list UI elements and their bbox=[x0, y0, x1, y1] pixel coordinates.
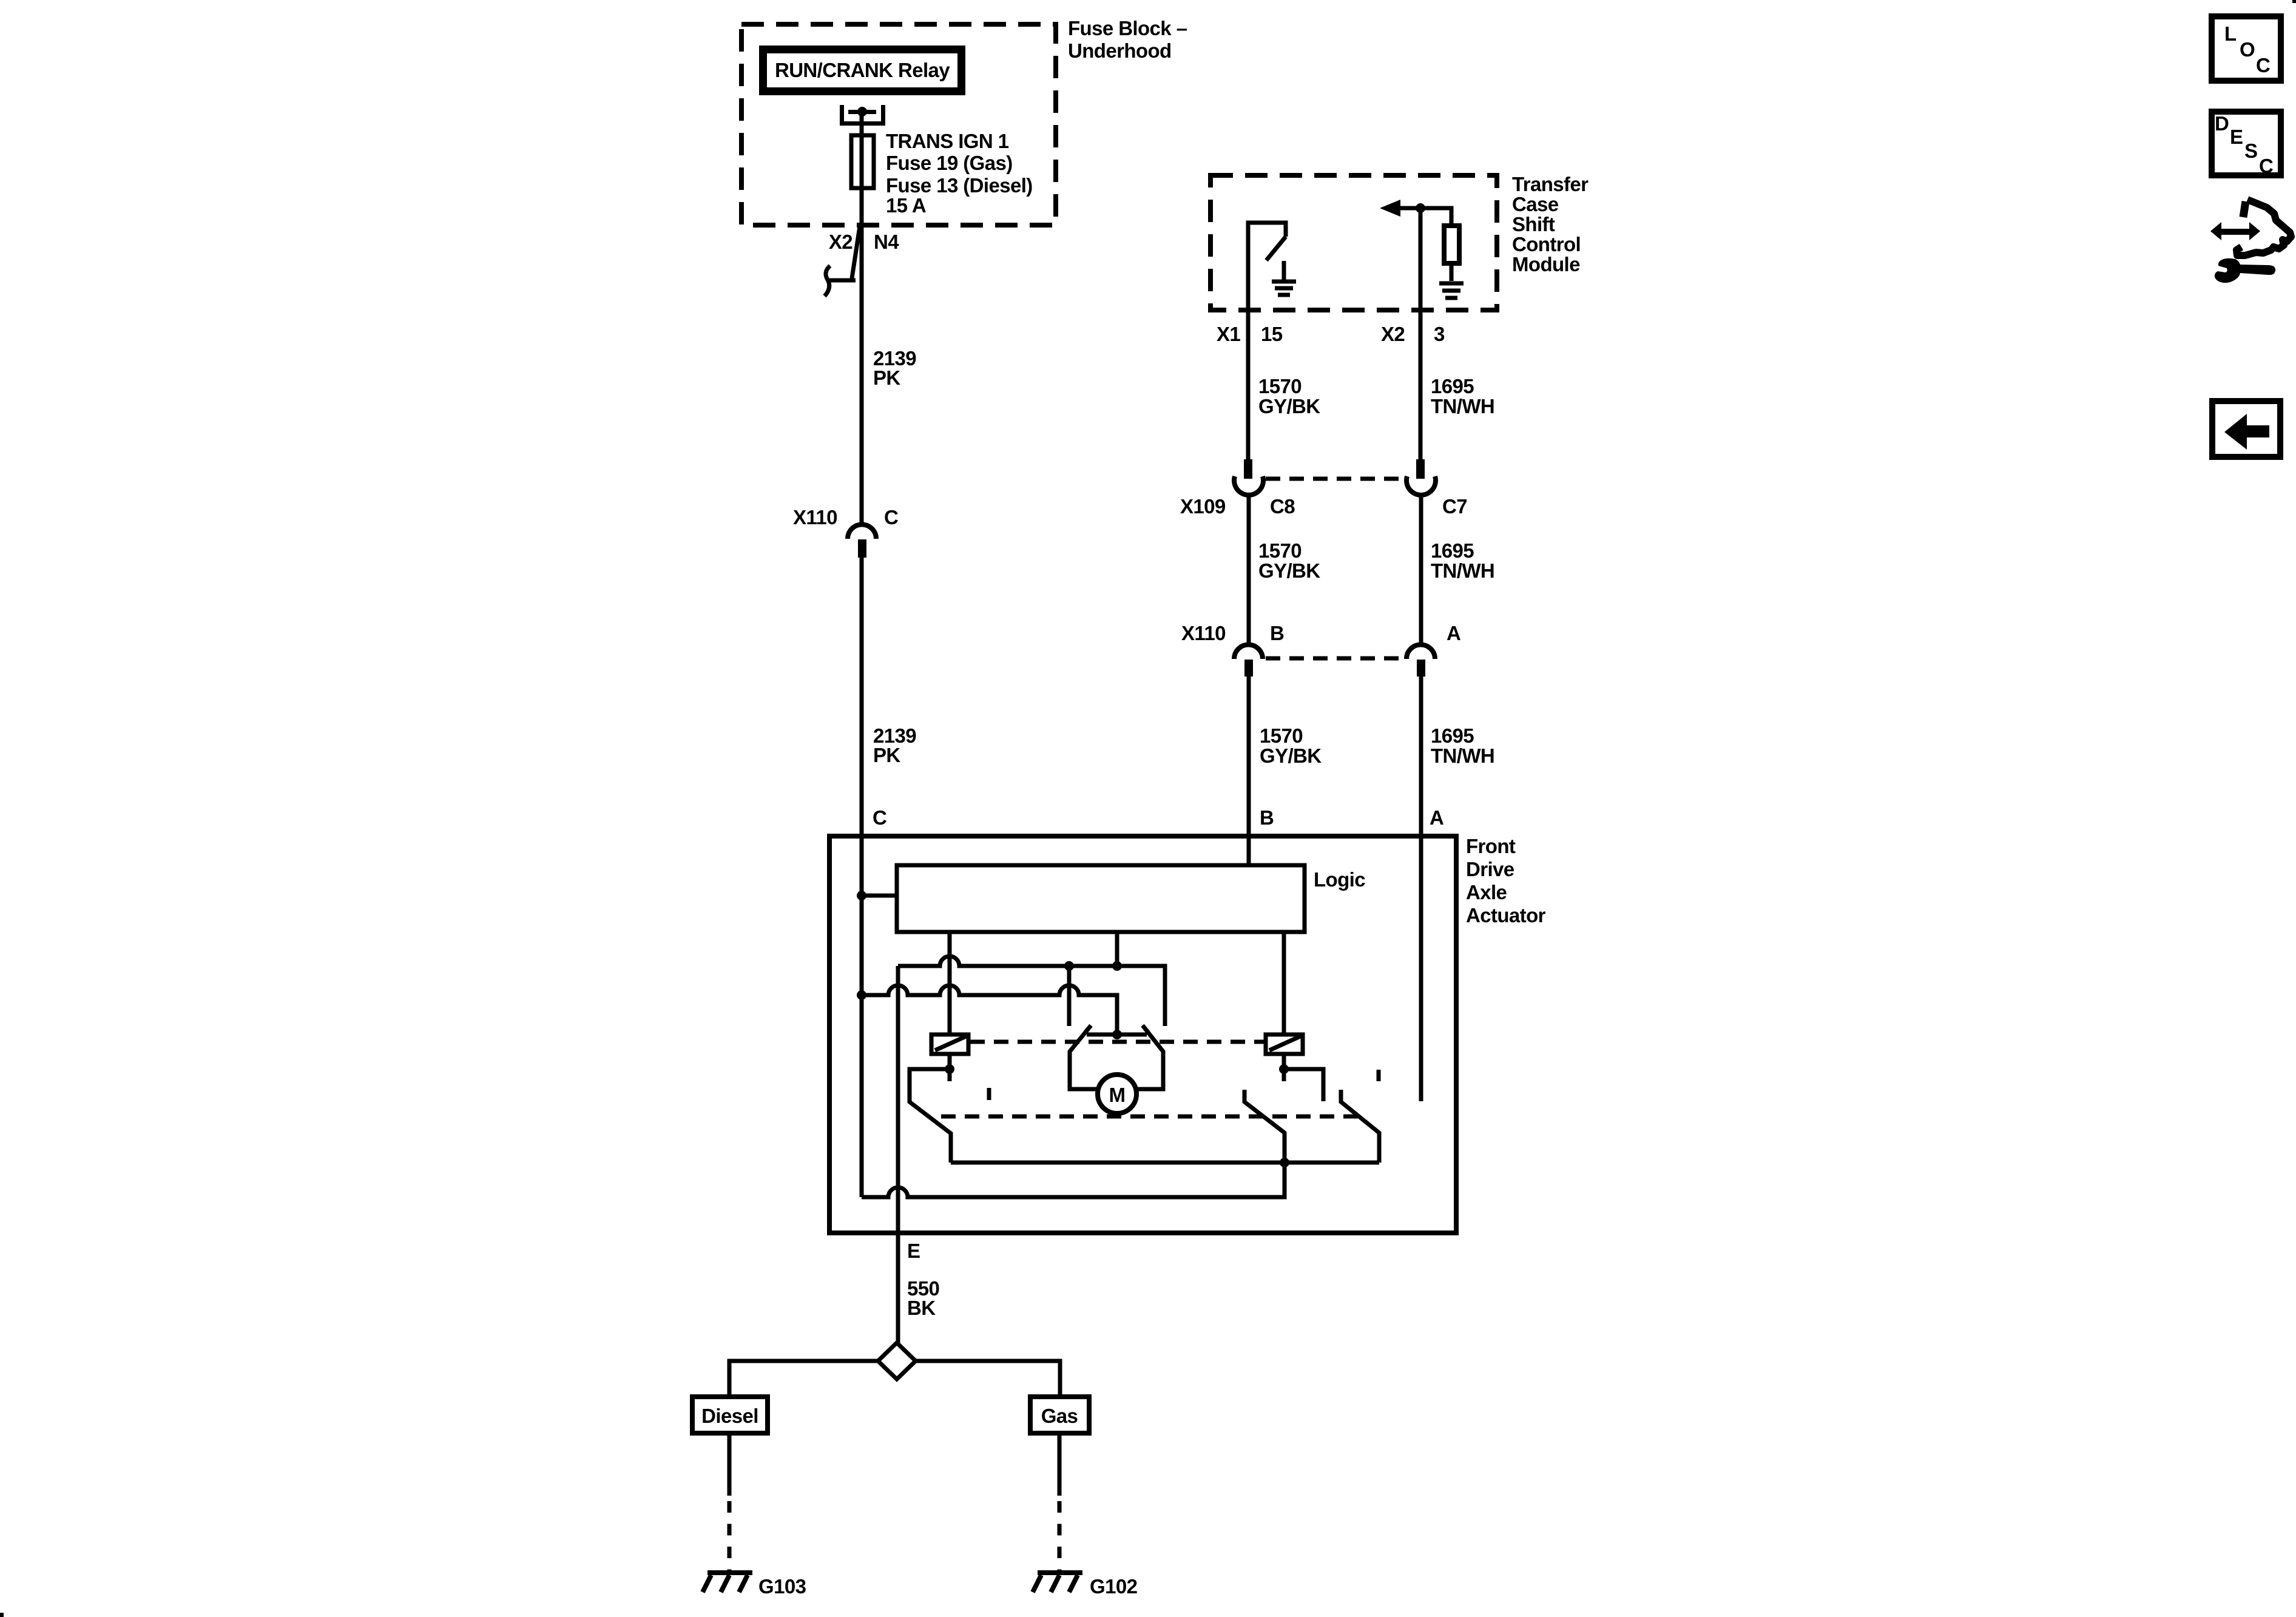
wire 1695 TN/WH segment 3 bbox=[1419, 676, 1423, 836]
connector X110 B pin bbox=[1244, 660, 1253, 677]
bus wire upper (motor supply) with hop bbox=[898, 956, 1165, 1026]
svg-text:Transfer: Transfer bbox=[1512, 173, 1589, 195]
reversing switch pivot bar bbox=[1087, 1033, 1147, 1037]
svg-text:TN/WH: TN/WH bbox=[1431, 559, 1494, 582]
svg-text:C: C bbox=[2256, 54, 2270, 76]
svg-text:C7: C7 bbox=[1442, 495, 1467, 518]
svg-text:N4: N4 bbox=[874, 231, 899, 253]
svg-text:15 A: 15 A bbox=[886, 194, 926, 217]
svg-text:PK: PK bbox=[873, 744, 900, 766]
svg-text:1570: 1570 bbox=[1258, 375, 1302, 397]
svg-text:3: 3 bbox=[1434, 323, 1445, 345]
svg-text:Gas: Gas bbox=[1041, 1405, 1078, 1427]
junction dot bus upper left contact bbox=[1064, 961, 1074, 971]
svg-text:X110: X110 bbox=[1181, 622, 1226, 644]
svg-text:X2: X2 bbox=[829, 231, 853, 253]
dashed mechanical link switches bbox=[941, 1115, 1360, 1119]
left switch blade wire bbox=[910, 1069, 951, 1163]
svg-text:M: M bbox=[1109, 1084, 1126, 1106]
wire common rail to C return with hop bbox=[862, 1163, 1285, 1197]
relay output contact bracket bbox=[840, 105, 885, 126]
wire 2139 PK upper segment bbox=[860, 225, 864, 525]
right switch blade 1 bbox=[1244, 1090, 1285, 1163]
svg-text:C: C bbox=[884, 506, 898, 528]
reversing switch left blade bbox=[1070, 1028, 1099, 1089]
wire 1695 TN/WH segment 1 bbox=[1419, 310, 1423, 459]
svg-text:Diesel: Diesel bbox=[701, 1405, 758, 1427]
right switch fixed contact stub bbox=[1377, 1070, 1381, 1081]
label Transfer Case Shift Control Module bbox=[1512, 173, 1589, 275]
connector X109 C8 arc bbox=[1234, 476, 1263, 495]
wire module pin 15 internal bbox=[1248, 223, 1286, 310]
connector X110 C arc bbox=[848, 524, 876, 539]
wire C inside actuator bbox=[860, 836, 864, 1197]
svg-text:RUN/CRANK Relay: RUN/CRANK Relay bbox=[775, 59, 950, 81]
splice diamond S? bbox=[878, 1343, 916, 1379]
svg-text:O: O bbox=[2240, 38, 2255, 61]
svg-text:X1: X1 bbox=[1217, 323, 1240, 345]
svg-text:Control: Control bbox=[1512, 233, 1581, 255]
svg-text:Front: Front bbox=[1466, 835, 1516, 857]
svg-text:1695: 1695 bbox=[1431, 539, 1474, 562]
diesel option box bbox=[692, 1397, 768, 1433]
svg-text:X2: X2 bbox=[1381, 323, 1405, 345]
junction dot internal bbox=[1416, 203, 1425, 213]
junction dot C to logic bbox=[857, 891, 866, 900]
motor M bbox=[1098, 1075, 1136, 1113]
transfer case shift control module dashed box bbox=[1210, 175, 1497, 310]
connector X109 C8 pin bbox=[1244, 459, 1252, 479]
svg-text:X110: X110 bbox=[793, 506, 837, 528]
connector X110 B arc bbox=[1234, 645, 1263, 660]
svg-text:D: D bbox=[2215, 112, 2229, 135]
connector X109 C7 arc bbox=[1406, 476, 1436, 495]
fuse block underhood dashed box bbox=[741, 24, 1056, 225]
right relay coil bottom stub bbox=[1282, 1054, 1286, 1081]
connector X110 A arc bbox=[1406, 645, 1435, 660]
svg-text:X109: X109 bbox=[1180, 495, 1226, 518]
right blade contact tick bbox=[1143, 1025, 1148, 1032]
svg-text:1695: 1695 bbox=[1431, 724, 1474, 747]
dashed mechanical link relay coils bbox=[970, 1040, 1264, 1044]
reversing switch right blade bbox=[1135, 1028, 1163, 1089]
page corner mark bottom-left bbox=[0, 1613, 4, 1617]
svg-text:Fuse 13 (Diesel): Fuse 13 (Diesel) bbox=[886, 174, 1033, 197]
gas option box bbox=[1030, 1397, 1089, 1433]
wire A inside actuator bbox=[1419, 836, 1423, 1101]
wire module pin 3 internal bbox=[1419, 208, 1423, 310]
svg-text:E: E bbox=[2230, 126, 2243, 148]
wire C feed to logic bbox=[862, 894, 897, 898]
svg-text:Case: Case bbox=[1512, 193, 1559, 215]
wire 1570 GY/BK segment 1 bbox=[1246, 310, 1251, 459]
svg-text:Shift: Shift bbox=[1512, 213, 1555, 235]
svg-text:A: A bbox=[1430, 806, 1443, 829]
right coil link wire bbox=[1284, 1069, 1323, 1101]
icon DESC box bbox=[2212, 112, 2281, 177]
wire 1695 TN/WH segment 2 bbox=[1419, 493, 1423, 645]
svg-text:E: E bbox=[907, 1240, 920, 1262]
wire 1570 GY/BK segment 2 bbox=[1247, 493, 1251, 645]
junction dot right coil bbox=[1279, 1064, 1289, 1074]
ground G103 bbox=[703, 1573, 752, 1592]
svg-text:1570: 1570 bbox=[1258, 539, 1302, 562]
terminal hook symbol bbox=[825, 266, 856, 296]
junction dot relay output bbox=[857, 107, 867, 116]
svg-text:B: B bbox=[1260, 806, 1274, 829]
junction dot C bus lower bbox=[857, 990, 866, 1000]
svg-text:Fuse Block –: Fuse Block – bbox=[1068, 17, 1187, 39]
svg-text:TN/WH: TN/WH bbox=[1431, 744, 1494, 767]
wire diesel to ground dashed bbox=[728, 1501, 732, 1573]
bus wire lower (common) with hops bbox=[862, 985, 1117, 1035]
wire diesel to ground solid bbox=[728, 1433, 732, 1496]
svg-text:G102: G102 bbox=[1090, 1575, 1138, 1598]
resistor internal bbox=[1444, 226, 1459, 263]
wire E vertical bbox=[896, 966, 900, 1343]
svg-text:BK: BK bbox=[907, 1297, 936, 1319]
ground internal right bbox=[1439, 266, 1464, 298]
signal arrow left bbox=[1380, 200, 1420, 217]
wire relay to fuse (2139 PK) bbox=[860, 112, 864, 225]
svg-text:B: B bbox=[1270, 622, 1284, 644]
wire left fixed contact of reversing switch bbox=[1067, 966, 1072, 1026]
switch blade low range bbox=[1266, 237, 1286, 260]
wire 2139 PK lower segment bbox=[860, 556, 864, 836]
svg-text:GY/BK: GY/BK bbox=[1260, 744, 1322, 767]
svg-text:C8: C8 bbox=[1270, 495, 1295, 518]
wire logic to left relay coil bbox=[948, 932, 952, 1033]
wire gas to ground solid bbox=[1058, 1433, 1062, 1496]
junction dot common rail bbox=[1280, 1158, 1289, 1167]
svg-text:PK: PK bbox=[873, 366, 900, 389]
connector slash through wire at fuse block exit bbox=[851, 226, 860, 282]
wire gas to ground dashed bbox=[1058, 1501, 1062, 1573]
svg-text:A: A bbox=[1447, 622, 1460, 644]
svg-text:Fuse 19 (Gas): Fuse 19 (Gas) bbox=[886, 152, 1013, 174]
svg-text:15: 15 bbox=[1261, 323, 1283, 345]
page corner mark top-right bbox=[2292, 0, 2296, 3]
svg-text:G103: G103 bbox=[758, 1575, 806, 1598]
right switch blade 2 bbox=[1341, 1090, 1379, 1163]
svg-text:C: C bbox=[2259, 155, 2273, 177]
svg-text:Axle: Axle bbox=[1466, 881, 1507, 903]
dashed connector line X109 bbox=[1266, 477, 1404, 481]
left relay coil bottom stub bbox=[948, 1054, 952, 1081]
label Front Drive Axle Actuator bbox=[1466, 835, 1546, 927]
svg-text:Actuator: Actuator bbox=[1466, 904, 1546, 927]
svg-text:Underhood: Underhood bbox=[1068, 39, 1172, 62]
wire splice to diesel branch bbox=[729, 1361, 878, 1397]
svg-text:L: L bbox=[2224, 22, 2237, 45]
wire B inside actuator bbox=[1247, 836, 1251, 865]
svg-text:1570: 1570 bbox=[1260, 724, 1303, 747]
svg-text:1695: 1695 bbox=[1431, 375, 1474, 397]
svg-text:C: C bbox=[873, 806, 886, 829]
connector X109 C7 pin bbox=[1416, 459, 1425, 479]
svg-text:GY/BK: GY/BK bbox=[1258, 559, 1320, 582]
wire logic to motor bus bbox=[1115, 932, 1119, 966]
icon LOC box bbox=[2212, 16, 2281, 81]
icon back arrow box bbox=[2212, 401, 2280, 457]
svg-text:GY/BK: GY/BK bbox=[1258, 395, 1320, 417]
wire logic to right relay coil bbox=[1282, 932, 1286, 1033]
relay RUN/CRANK Relay box bbox=[759, 46, 965, 95]
svg-text:TRANS IGN 1: TRANS IGN 1 bbox=[886, 130, 1009, 152]
front drive axle actuator box bbox=[829, 836, 1456, 1233]
connector X110 A pin bbox=[1417, 660, 1425, 677]
junction dot bus upper logic feed bbox=[1112, 961, 1122, 971]
svg-text:Logic: Logic bbox=[1314, 868, 1365, 891]
wire splice to gas branch bbox=[916, 1361, 1060, 1397]
left blade contact tick bbox=[1086, 1025, 1091, 1032]
dashed connector line X110 bbox=[1266, 657, 1404, 661]
icon vehicle outline with arrow and wrench bbox=[2210, 200, 2291, 283]
common rail of switches bbox=[951, 1161, 1379, 1165]
logic block bbox=[897, 865, 1305, 932]
svg-text:Module: Module bbox=[1512, 253, 1580, 275]
wire 1570 GY/BK segment 3 bbox=[1247, 676, 1251, 865]
left relay coil bbox=[931, 1035, 968, 1054]
svg-text:Drive: Drive bbox=[1466, 858, 1514, 880]
ground internal left bbox=[1272, 261, 1296, 295]
left switch fixed contact stub bbox=[987, 1088, 991, 1100]
wire to pull-up resistor bbox=[1420, 208, 1451, 223]
junction dot pivot bbox=[1112, 1030, 1122, 1039]
svg-text:S: S bbox=[2244, 140, 2257, 162]
right relay coil bbox=[1266, 1035, 1303, 1054]
connector X110 C pin bbox=[858, 539, 866, 558]
junction dot left coil bbox=[945, 1064, 954, 1074]
fuse TRANS IGN 1 15A bbox=[851, 135, 874, 188]
ground G102 bbox=[1033, 1573, 1082, 1592]
svg-text:TN/WH: TN/WH bbox=[1431, 395, 1494, 417]
